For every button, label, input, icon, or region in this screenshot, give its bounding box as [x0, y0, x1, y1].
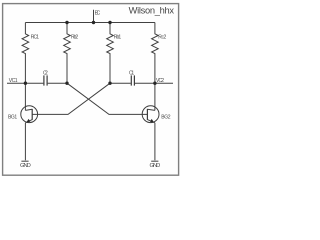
svg-text:Rc2: Rc2 [158, 35, 166, 41]
svg-text:RC1: RC1 [31, 35, 39, 41]
svg-text:GND: GND [20, 163, 31, 169]
svg-text:VC2: VC2 [156, 78, 164, 84]
svg-text:EC: EC [95, 11, 101, 17]
svg-text:BG2: BG2 [161, 115, 170, 121]
svg-text:Rb2: Rb2 [71, 35, 78, 41]
svg-text:Wilson_hhx: Wilson_hhx [129, 5, 175, 15]
svg-text:BG1: BG1 [8, 114, 17, 120]
svg-text:C2: C2 [43, 71, 48, 77]
svg-text:Rb1: Rb1 [114, 35, 122, 41]
svg-text:VC1: VC1 [9, 78, 18, 84]
svg-text:C1: C1 [129, 71, 134, 77]
svg-text:GND: GND [150, 163, 161, 169]
